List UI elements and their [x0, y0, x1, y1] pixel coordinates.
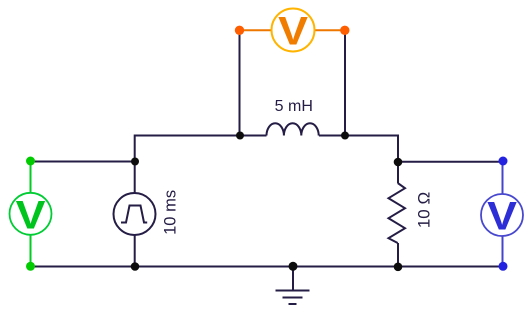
wire resistor bottom lead — [397, 243, 399, 267]
junction node D — [341, 132, 349, 140]
wire left riser and middle bus left segment — [135, 136, 267, 162]
junction node F — [394, 263, 403, 272]
junction node ground — [289, 262, 298, 271]
node orange right — [340, 26, 349, 35]
wire pulse source top lead — [134, 162, 136, 194]
inductor L1 5 mH — [267, 123, 319, 135]
svg-text:10 Ω: 10 Ω — [414, 192, 433, 228]
pulse source V1 — [114, 193, 156, 235]
node blue bottom — [499, 262, 508, 271]
resistor R1 zigzag — [389, 183, 406, 243]
junction node E — [394, 158, 403, 167]
junction node C — [236, 132, 244, 140]
node green top — [26, 157, 35, 166]
wire top vertical right to orange dot — [344, 34, 346, 136]
wire resistor top lead — [397, 162, 399, 183]
wire top vertical left to orange dot — [239, 34, 241, 136]
svg-text:V: V — [487, 194, 518, 238]
voltmeter green M1 — [10, 163, 52, 265]
voltmeter blue M3 — [481, 163, 523, 264]
node green bottom — [26, 262, 35, 271]
wire left horizontal from green voltmeter — [31, 161, 135, 163]
wire pulse source bottom lead — [134, 235, 136, 267]
node blue top — [499, 157, 508, 166]
junction node A — [131, 158, 139, 166]
junction node B — [131, 262, 140, 271]
svg-text:10 ms: 10 ms — [161, 190, 179, 235]
svg-text:V: V — [278, 9, 309, 53]
node orange left — [235, 26, 244, 35]
svg-text:5 mH: 5 mH — [275, 98, 313, 115]
wire bottom bus — [31, 266, 504, 268]
wire right horizontal to blue voltmeter — [398, 161, 503, 163]
wire middle bus right segment and right riser — [319, 136, 398, 163]
ground — [276, 267, 310, 305]
voltmeter orange M2 — [243, 9, 342, 54]
svg-text:V: V — [16, 193, 47, 237]
